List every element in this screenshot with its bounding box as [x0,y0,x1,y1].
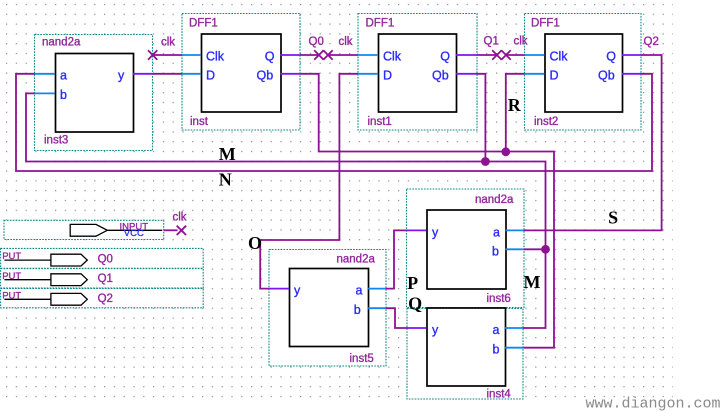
inst output stub Q [281,54,301,56]
D flip-flop inst1 body [379,34,457,112]
node label Q [408,293,422,313]
svg-text:a: a [493,226,500,240]
svg-text:inst2: inst2 [534,116,558,128]
svg-text:Qb: Qb [257,69,274,83]
svg-text:inst5: inst5 [350,353,374,365]
pin-end X marker clk (input pin) [177,226,186,235]
wire net Q (inst4.y to inst5.b) [386,308,407,328]
inst1 output stub Q [456,54,477,56]
svg-text:inst3: inst3 [44,135,68,147]
svg-text:Q0: Q0 [98,254,113,266]
node label N [219,170,232,190]
svg-text:Q2: Q2 [98,293,113,305]
svg-text:PUT: PUT [2,271,21,282]
net label Q2 [644,36,659,48]
inst5 input stub b [368,307,386,309]
inst2 input stub D [525,73,545,75]
svg-text:nand2a: nand2a [475,194,514,206]
inst3 input stub b [35,92,56,94]
svg-text:inst1: inst1 [368,116,392,128]
inst2 output stub Qb [622,73,641,75]
nand2a U inst3 selection box [35,35,153,151]
input pin clk selection box [4,220,164,239]
svg-text:y: y [432,226,439,240]
pin-end X marker Q0 [314,50,323,59]
svg-text:inst4: inst4 [487,389,512,401]
inst2 input stub Clk [525,54,545,56]
net label clk (left of inst1) [339,36,353,48]
wire clk stub to inst.Clk [153,54,182,56]
pin-end X marker clk (inst.Clk) [148,50,157,59]
svg-text:y: y [432,323,439,337]
wire Q1 stub from inst1.Q [477,54,497,56]
watermark [586,396,721,413]
svg-text:Q: Q [440,49,450,63]
pin-end X marker clk (inst1.Clk) [323,50,332,59]
inst labels [189,17,275,128]
svg-text:Q: Q [265,49,275,63]
nand2a inst5 body (mirrored) [290,269,369,347]
svg-text:b: b [354,303,361,317]
svg-text:PUT: PUT [2,290,21,301]
inst1 labels [366,17,451,128]
nand2a U inst6 selection box [407,189,525,308]
D flip-flop U inst1 selection box [358,14,477,131]
nand2a U inst4 selection box [407,309,523,400]
wire Q0 stub from inst.Q [300,54,319,56]
output pin Q1 symbol [2,271,113,286]
net label clk (left of inst2) [514,36,528,48]
svg-text:DFF1: DFF1 [189,17,218,29]
inst5 output stub y [269,288,289,290]
svg-text:inst: inst [190,116,209,128]
svg-text:Clk: Clk [550,49,569,63]
nand2a inst6 body (mirrored) [427,210,506,289]
svg-text:clk: clk [161,36,175,48]
inst5 input stub a [368,288,386,290]
wire clk stub to inst2.Clk [506,54,525,56]
svg-text:D: D [383,69,392,83]
wire net R branch to inst2.D [506,74,525,152]
inst output stub Qb [281,73,301,75]
svg-text:M: M [524,272,541,292]
svg-text:a: a [356,283,363,297]
node label M (left) [219,144,236,164]
svg-text:b: b [492,245,499,259]
inst4 output stub y [407,327,427,329]
wire inst3.y to inst.D [153,73,183,75]
svg-text:PUT: PUT [2,251,21,262]
svg-text:Q: Q [606,49,616,63]
inst4 labels [432,323,511,401]
wire net M branch to inst6.b [524,248,546,250]
output pin Q0 selection box [1,248,204,268]
svg-text:Q0: Q0 [309,36,324,48]
svg-text:R: R [508,95,522,115]
junction dot net M at inst6.b [541,245,550,254]
node label R [508,95,522,115]
svg-text:Q: Q [408,293,422,313]
svg-text:Q2: Q2 [644,36,659,48]
wire clk from input pin [164,229,178,231]
wire net M branch from inst1.Qb [477,74,485,162]
output pin Q2 symbol [2,290,113,305]
svg-text:b: b [60,88,67,102]
svg-text:Qb: Qb [432,69,449,83]
inst1 input stub Clk [358,54,378,56]
svg-text:b: b [493,343,500,357]
wire net N (inst2.Qb to inst3.a) [16,74,652,171]
inst6 input stub a [506,229,525,231]
inst1 input stub D [358,73,378,75]
input pin clk symbol [70,221,162,239]
wire net P (inst6.y to inst5.a) [386,230,407,288]
D flip-flop U inst selection box [182,14,300,131]
svg-text:y: y [294,283,301,297]
net label clk (left of inst) [161,36,175,48]
D flip-flop inst2 body [545,34,623,112]
junction dot net M at inst1.Qb [481,157,490,166]
svg-text:clk: clk [339,36,353,48]
node label P [407,273,418,293]
nand2a inst3 body [56,54,134,133]
svg-text:O: O [248,233,262,253]
pin-end X marker Q1 [492,50,501,59]
net label Q0 [309,36,324,48]
inst input stub Clk [182,54,201,56]
inst4 input stub a [505,327,523,329]
svg-text:M: M [219,144,236,164]
svg-text:nand2a: nand2a [42,36,81,48]
svg-text:inst6: inst6 [487,293,511,305]
wire net R (inst.Qb to inst2.D and inst4.b) [300,74,554,348]
svg-text:D: D [206,69,215,83]
output pin Q0 symbol [2,251,113,266]
inst6 input stub b [506,248,525,250]
wire net O (inst5.y to inst1.D) [260,74,358,289]
svg-text:DFF1: DFF1 [531,17,560,29]
svg-text:P: P [407,273,418,293]
pin-end X marker clk (inst2.Clk) [501,50,510,59]
nand2a inst4 body (mirrored) [427,308,506,386]
svg-text:www.diangon.com: www.diangon.com [586,396,721,413]
D flip-flop inst body [202,34,282,112]
net label clk (input pin) [173,212,187,224]
svg-text:Qb: Qb [598,69,615,83]
node label O [248,233,262,253]
svg-text:DFF1: DFF1 [366,17,395,29]
inst input stub D [182,73,201,75]
svg-text:Clk: Clk [383,49,402,63]
output pin Q1 selection box [1,269,204,288]
svg-text:a: a [60,69,67,83]
net label Q1 [484,36,499,48]
node label S [608,207,618,227]
inst2 labels [531,17,616,128]
svg-text:nand2a: nand2a [337,254,376,266]
svg-text:clk: clk [173,212,187,224]
nand2a U inst5 selection box [269,250,386,367]
svg-text:Q1: Q1 [98,273,113,285]
svg-text:S: S [608,207,618,227]
inst3 labels [42,36,125,146]
inst6 labels [432,194,514,305]
junction dot net R at inst2.D [501,147,510,156]
inst5 labels [294,254,375,365]
wire net M (inst3.b / inst1.Qb / inst6.b / inst4.a) [26,93,546,328]
inst3 output stub y [133,73,153,75]
svg-text:D: D [550,69,559,83]
wire net S (inst2.Q / Q2 to inst6.a) [524,55,662,230]
svg-text:clk: clk [514,36,528,48]
node label M (right) [524,272,541,292]
inst6 output stub y [407,229,427,231]
svg-text:Clk: Clk [206,49,225,63]
svg-text:N: N [219,170,232,190]
D flip-flop U inst2 selection box [525,14,642,131]
svg-text:Q1: Q1 [484,36,499,48]
svg-text:VCC: VCC [124,228,144,239]
inst1 output stub Qb [456,73,477,75]
inst4 input stub b [505,347,524,349]
wire clk stub to inst1.Clk [328,54,358,56]
inst2 output stub Q [622,54,641,56]
svg-text:y: y [118,69,125,83]
svg-text:a: a [493,323,500,337]
inst3 input stub a [35,73,56,75]
output pin Q2 selection box [1,288,204,307]
